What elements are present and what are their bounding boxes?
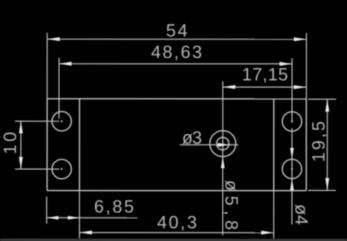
- dim 54 right extension line: [305, 33, 307, 99]
- dim 54 line: [47, 38, 306, 40]
- arrowhead 54 left: [47, 37, 60, 41]
- dim 10 line: [20, 121, 22, 169]
- plate bottom edge: [47, 190, 306, 192]
- arrowhead 48,63 right: [280, 62, 293, 66]
- arrowhead dia4 down: [290, 148, 294, 159]
- svg-text:40,3: 40,3: [157, 212, 197, 232]
- arrowhead 6,85 right: [68, 216, 80, 220]
- arrowhead 17,15 left: [223, 85, 236, 89]
- dia 3 leader line: [180, 144, 230, 146]
- dim 48,63 line: [59, 63, 292, 65]
- dim 10 top extension line: [15, 120, 59, 122]
- arrowhead 19,5 top: [325, 99, 329, 112]
- hole bottom-right: [282, 159, 301, 178]
- svg-text:17,15: 17,15: [242, 64, 288, 84]
- center dots of left holes: [61, 120, 63, 122]
- svg-text:19,5: 19,5: [308, 121, 328, 162]
- center boss inner circle: [217, 137, 229, 149]
- dim 54 left extension line: [46, 33, 48, 99]
- dim 17,15 line: [223, 86, 306, 88]
- arrowhead 19,5 bottom: [325, 178, 329, 191]
- ø3 horizontal centerline right stub: [229, 144, 238, 146]
- plate left edge: [46, 99, 48, 191]
- arrowhead dia5,8 up: [221, 157, 225, 169]
- dim 19,5 line: [326, 99, 328, 190]
- dim 6,85 line: [47, 217, 137, 219]
- dim 19,5 bottom extension line: [308, 189, 336, 191]
- right divider line: [273, 99, 275, 191]
- svg-text:6,85: 6,85: [94, 196, 134, 216]
- svg-text:54: 54: [166, 20, 188, 40]
- hole bottom-left: [52, 159, 71, 178]
- plate right edge: [305, 99, 307, 191]
- arrowhead 54 right: [294, 37, 307, 41]
- plate top edge: [47, 98, 306, 100]
- dim 48,63 right extension line / right holes centerline upper: [291, 58, 293, 123]
- svg-text:ø5,8: ø5,8: [221, 180, 241, 230]
- bottom window edge line: [0, 238, 347, 239]
- svg-text:ø3: ø3: [182, 128, 202, 148]
- svg-text:ø4: ø4: [291, 204, 311, 225]
- left divider extension line below plate: [78, 191, 80, 239]
- dim 6,85 left extension line: [46, 197, 48, 224]
- arrowhead 40,3 right: [261, 231, 274, 235]
- dim 19,5 top extension line: [308, 98, 336, 100]
- arrowhead 10 top: [19, 121, 23, 133]
- left divider line: [78, 99, 80, 191]
- hole top-left: [52, 112, 71, 131]
- arrowhead 48,63 left: [59, 62, 72, 66]
- right divider extension line below plate: [273, 191, 275, 239]
- hole top-right: [282, 112, 301, 131]
- dia 4 dimension line through bottom-right hole: [291, 128, 293, 224]
- center vertical line: 17,15 extension + boss centerline + dia 5,8 leader: [222, 81, 224, 235]
- svg-text:48,63: 48,63: [151, 42, 202, 62]
- dim 10 bottom extension line: [15, 168, 59, 170]
- arrowhead 17,15 right: [294, 85, 307, 89]
- arrowhead 10 bottom: [19, 157, 23, 169]
- arrowhead dia3: [218, 143, 230, 147]
- center boss outer circle: [210, 131, 236, 157]
- dim 48,63 left extension line: [58, 58, 60, 119]
- arrowhead 6,85 left: [47, 216, 59, 220]
- arrowhead dia4 up: [290, 179, 294, 191]
- arrowhead 40,3 left: [79, 231, 92, 235]
- dim 40,3 line: [79, 232, 273, 234]
